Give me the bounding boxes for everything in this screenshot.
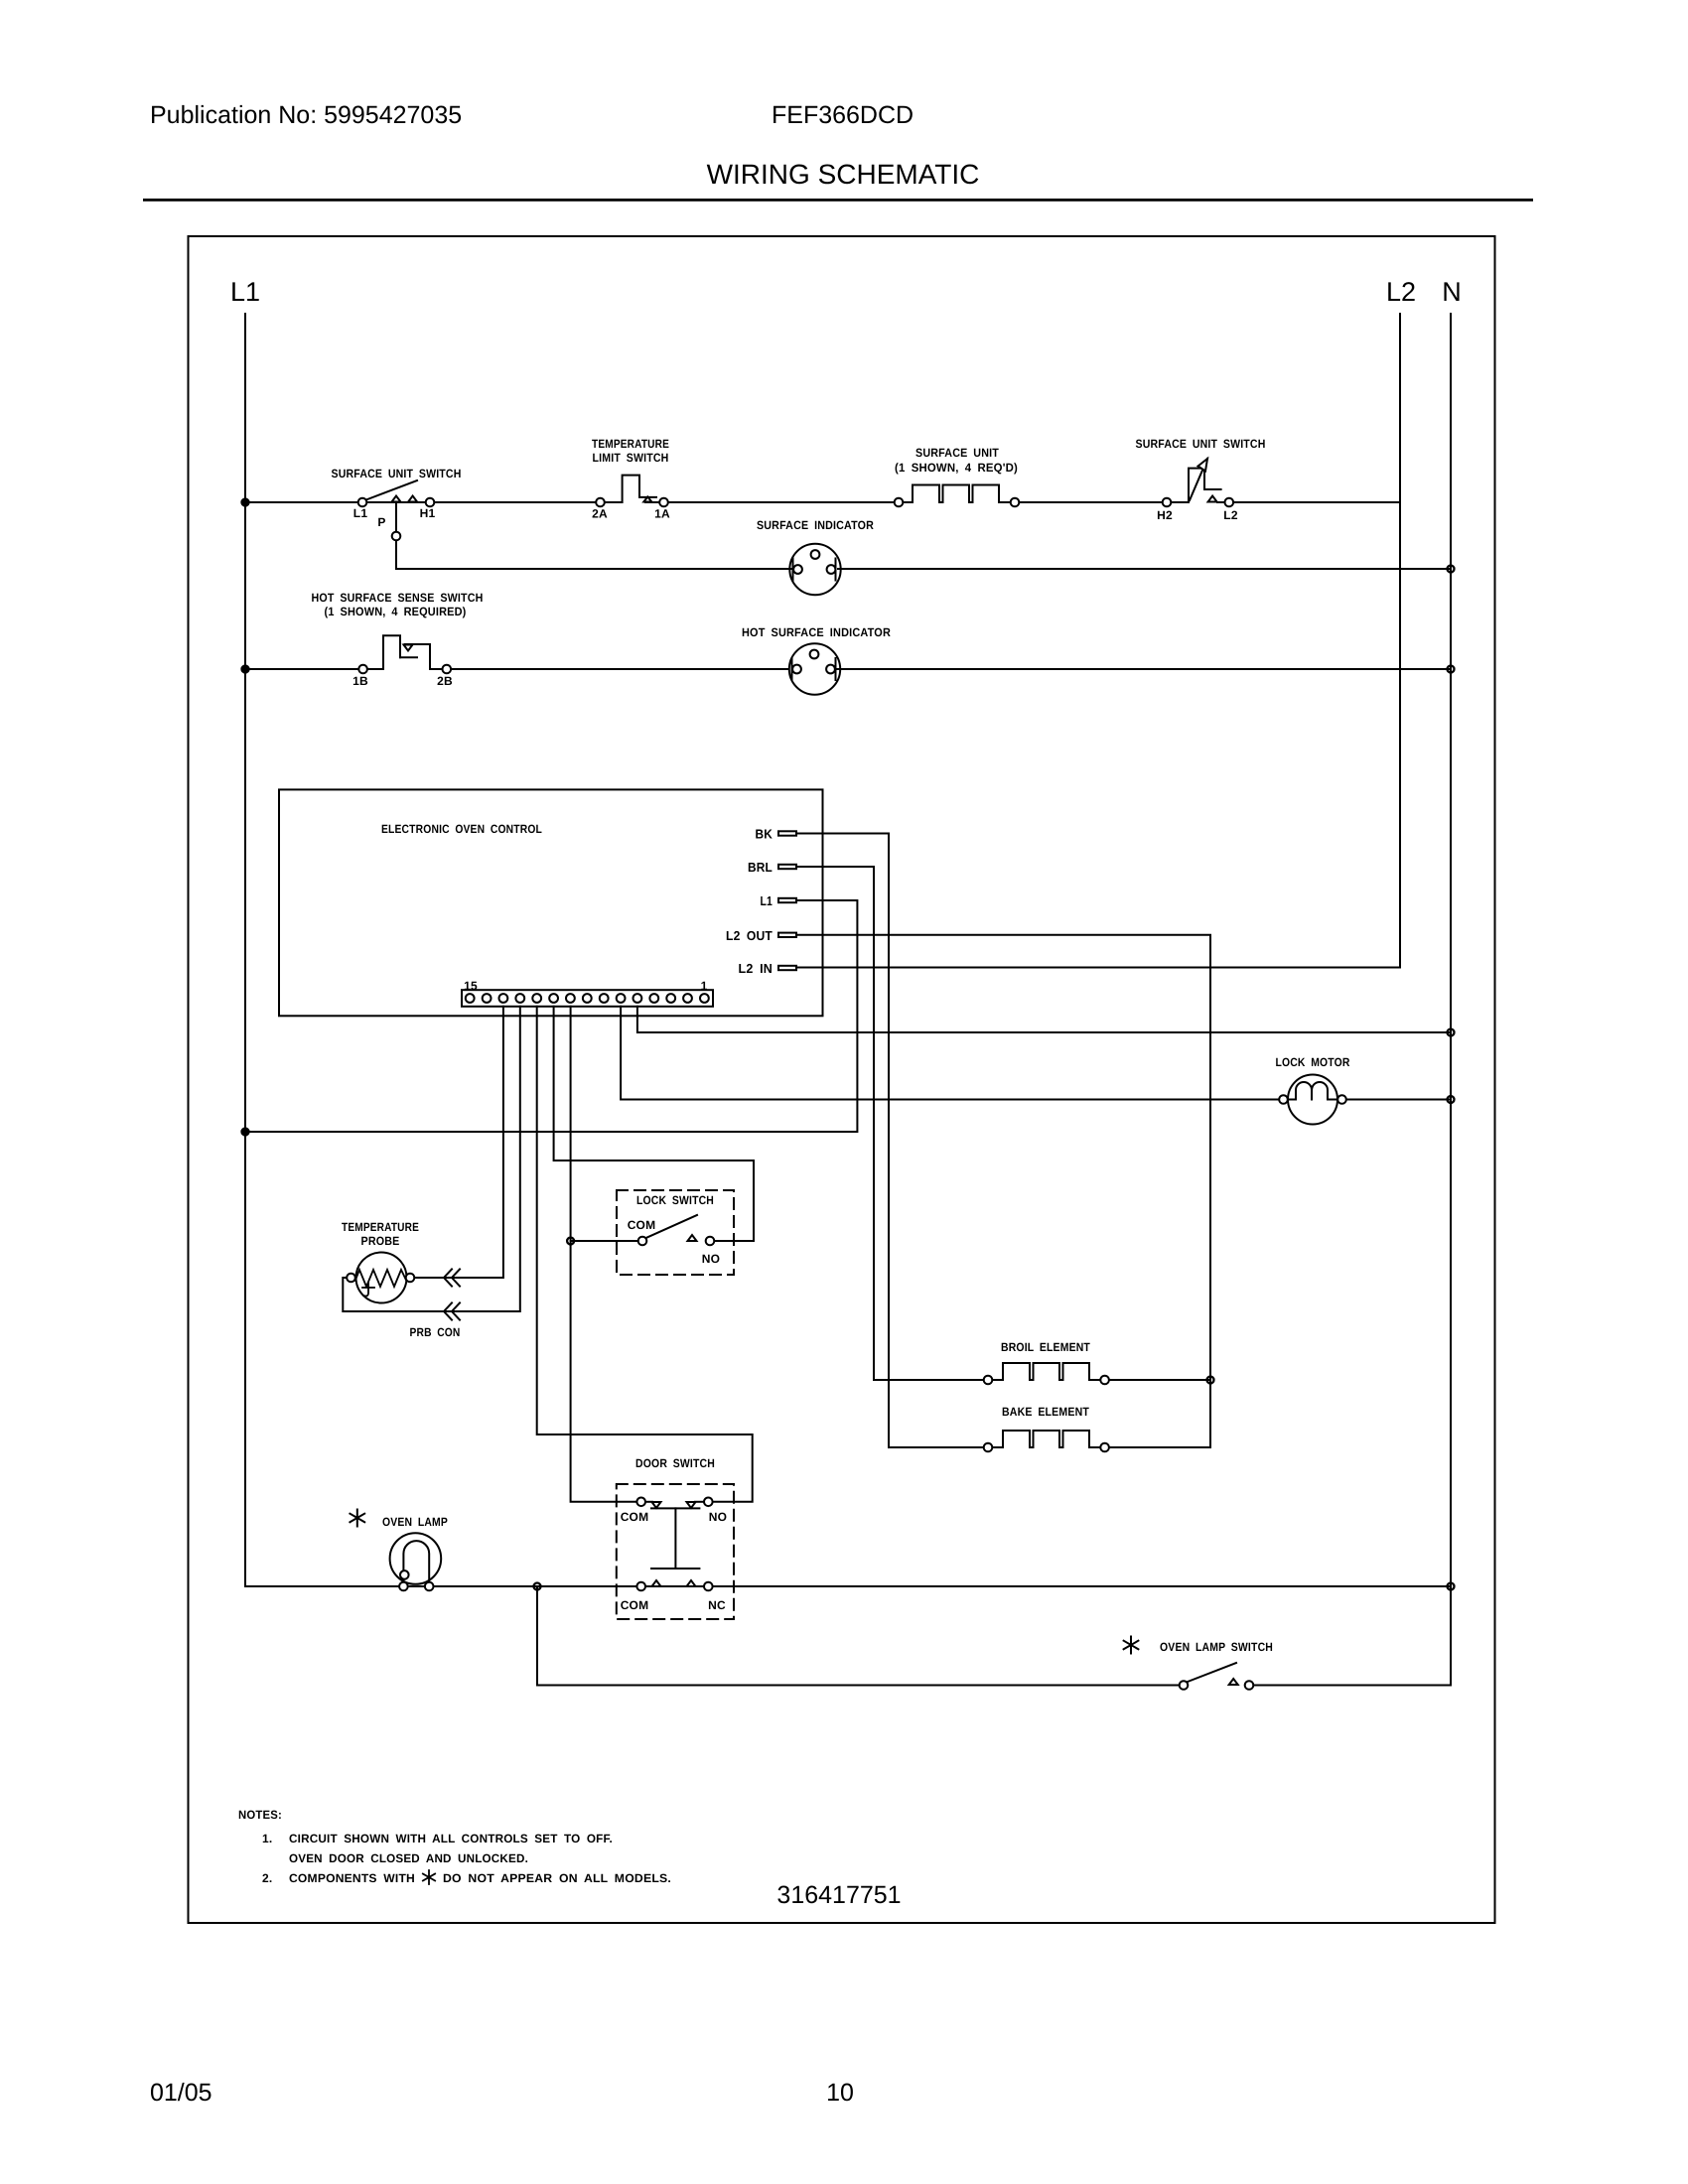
svg-text:L1: L1 [230, 277, 260, 307]
svg-text:BAKE ELEMENT: BAKE ELEMENT [1002, 1405, 1089, 1419]
svg-text:L1: L1 [761, 893, 774, 908]
svg-text:CIRCUIT SHOWN WITH ALL CONTROL: CIRCUIT SHOWN WITH ALL CONTROLS SET TO O… [289, 1832, 613, 1845]
svg-text:H1: H1 [420, 506, 436, 520]
svg-text:WIRING SCHEMATIC: WIRING SCHEMATIC [707, 159, 980, 190]
svg-text:316417751: 316417751 [776, 1881, 901, 1909]
svg-text:SURFACE INDICATOR: SURFACE INDICATOR [757, 518, 874, 532]
svg-text:OVEN LAMP: OVEN LAMP [382, 1515, 448, 1529]
svg-text:L2: L2 [1386, 277, 1416, 307]
svg-text:NC: NC [708, 1598, 726, 1612]
svg-text:LIMIT SWITCH: LIMIT SWITCH [593, 451, 669, 465]
svg-text:(1 SHOWN, 4 REQUIRED): (1 SHOWN, 4 REQUIRED) [325, 605, 467, 618]
svg-text:COM: COM [628, 1218, 656, 1232]
svg-text:COM: COM [621, 1598, 649, 1612]
svg-text:NO: NO [709, 1510, 727, 1524]
svg-text:LOCK MOTOR: LOCK MOTOR [1276, 1055, 1350, 1069]
svg-text:FEF366DCD: FEF366DCD [772, 101, 914, 129]
svg-text:NOTES:: NOTES: [238, 1808, 282, 1822]
svg-text:OVEN DOOR CLOSED AND UNLOCKED.: OVEN DOOR CLOSED AND UNLOCKED. [289, 1851, 528, 1865]
svg-text:TEMPERATURE: TEMPERATURE [342, 1220, 419, 1234]
svg-text:1.: 1. [262, 1832, 272, 1845]
svg-text:L2 OUT: L2 OUT [726, 928, 773, 943]
svg-text:COMPONENTS WITH: COMPONENTS WITH [289, 1871, 415, 1885]
svg-text:1A: 1A [654, 507, 670, 521]
svg-text:L2 IN: L2 IN [739, 961, 774, 976]
svg-text:L2: L2 [1223, 508, 1238, 522]
svg-text:BRL: BRL [748, 860, 773, 875]
svg-text:BROIL ELEMENT: BROIL ELEMENT [1001, 1340, 1090, 1354]
svg-text:Publication No: 5995427035: Publication No: 5995427035 [150, 101, 462, 129]
svg-text:L1: L1 [353, 506, 368, 520]
svg-text:SURFACE UNIT SWITCH: SURFACE UNIT SWITCH [1136, 437, 1266, 451]
svg-text:BK: BK [756, 827, 774, 842]
svg-text:ELECTRONIC OVEN CONTROL: ELECTRONIC OVEN CONTROL [381, 822, 542, 836]
svg-text:10: 10 [826, 2079, 854, 2107]
svg-text:HOT SURFACE SENSE SWITCH: HOT SURFACE SENSE SWITCH [312, 591, 484, 605]
svg-text:P: P [377, 515, 385, 529]
svg-text:LOCK SWITCH: LOCK SWITCH [636, 1193, 714, 1207]
svg-text:SURFACE UNIT: SURFACE UNIT [915, 446, 999, 460]
svg-text:HOT SURFACE INDICATOR: HOT SURFACE INDICATOR [742, 625, 891, 639]
svg-text:OVEN LAMP SWITCH: OVEN LAMP SWITCH [1160, 1640, 1273, 1654]
svg-text:DO NOT APPEAR ON ALL MODELS.: DO NOT APPEAR ON ALL MODELS. [443, 1871, 671, 1885]
svg-text:COM: COM [621, 1510, 649, 1524]
svg-text:PROBE: PROBE [361, 1234, 400, 1248]
svg-text:TEMPERATURE: TEMPERATURE [592, 437, 669, 451]
svg-text:1B: 1B [352, 674, 368, 688]
svg-text:NO: NO [702, 1252, 720, 1266]
svg-text:SURFACE UNIT SWITCH: SURFACE UNIT SWITCH [332, 467, 462, 480]
svg-text:2A: 2A [592, 507, 608, 521]
svg-text:2.: 2. [262, 1871, 272, 1885]
svg-text:01/05: 01/05 [150, 2079, 212, 2107]
svg-text:PRB CON: PRB CON [410, 1325, 461, 1339]
svg-text:(1 SHOWN, 4 REQ'D): (1 SHOWN, 4 REQ'D) [895, 461, 1018, 475]
svg-text:2B: 2B [437, 674, 453, 688]
svg-text:N: N [1442, 277, 1462, 307]
svg-text:H2: H2 [1157, 508, 1173, 522]
svg-text:DOOR SWITCH: DOOR SWITCH [635, 1456, 715, 1470]
